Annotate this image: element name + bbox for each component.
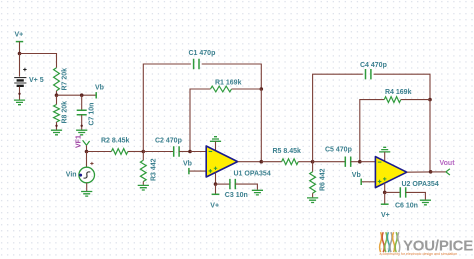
node battery/R7 junction <box>18 52 22 56</box>
svg-text:VF1: VF1 <box>76 135 83 148</box>
resistor R5 8.45k <box>261 148 312 165</box>
logo Youspice icon <box>380 232 400 252</box>
svg-text:V+: V+ <box>381 212 390 219</box>
svg-text:U1 OPA354: U1 OPA354 <box>234 171 271 178</box>
node U1 output junction <box>260 160 264 164</box>
node Vin/R2 junction <box>85 150 89 154</box>
wire to U1 inverting input <box>190 151 206 153</box>
wire junction to R7 top <box>20 54 57 68</box>
svg-text:R6 442: R6 442 <box>320 168 327 191</box>
ground below R3 <box>138 185 149 190</box>
svg-text:C6 10n: C6 10n <box>395 203 418 210</box>
resistor R7 20k <box>54 68 69 96</box>
node R1/C1 feedback junction <box>260 87 264 91</box>
capacitor C2 470p <box>143 138 190 157</box>
logo Youspice wordmark <box>380 238 474 256</box>
net label Vb at U1 non-inverting input <box>183 161 206 175</box>
net label V+ below U2 <box>381 192 390 219</box>
wire feedback vertical to U2 output <box>429 100 431 172</box>
op-amp U1 OPA354 <box>206 146 271 178</box>
svg-text:V+: V+ <box>15 32 24 39</box>
wire U1 output <box>238 161 262 163</box>
wire C4 to output feedback vertical <box>374 74 430 99</box>
resistor R2 8.45k <box>101 138 143 155</box>
svg-text:Vin: Vin <box>66 172 77 179</box>
ground above U2 (V- pin) <box>379 147 390 160</box>
svg-text:Vb: Vb <box>352 172 361 179</box>
wire C1 to output feedback vertical <box>202 64 262 89</box>
net label Vb (left) <box>95 85 104 99</box>
pin dot below R8 <box>55 125 57 127</box>
node U2 power/C6 junction <box>383 191 387 195</box>
node U1 power/C3 junction <box>214 182 218 186</box>
battery V+ 5 <box>14 54 44 100</box>
capacitor C3 10n <box>216 179 258 199</box>
ground below battery <box>14 100 25 105</box>
node R4/C4 feedback junction <box>428 98 432 102</box>
wire junction to C7 and Vb pin <box>57 94 96 96</box>
ground below Vin <box>81 192 92 197</box>
node A junction R2/R3/C2/feedback <box>142 150 146 154</box>
svg-text:C7 10n: C7 10n <box>89 103 96 126</box>
net label V+ (supply rail, top-left) <box>15 32 24 42</box>
svg-text:R7 20k: R7 20k <box>62 68 69 91</box>
svg-text:R5 8.45k: R5 8.45k <box>273 148 302 155</box>
resistor R3 442 <box>140 152 157 185</box>
resistor R4 169k <box>360 89 430 162</box>
resistor R8 20k <box>54 95 69 129</box>
node U1 inverting input junction <box>188 150 192 154</box>
capacitor C5 470p <box>313 147 360 167</box>
capacitor C1 470p <box>189 50 216 69</box>
svg-text:a community for electronic des: a community for electronic design and si… <box>380 252 458 256</box>
svg-text:C1 470p: C1 470p <box>189 50 216 57</box>
svg-text:U2 OPA354: U2 OPA354 <box>402 181 439 188</box>
ground below C7 <box>76 130 87 135</box>
wire U1 bottom power pin <box>215 173 217 185</box>
svg-text:Vb: Vb <box>95 85 104 92</box>
wire node A up to C1 (feedback top) <box>143 64 191 152</box>
wire to U2 inverting input <box>360 161 376 163</box>
wire V+ pin to battery/R7 node <box>19 42 21 54</box>
net label V+ below U1 <box>210 184 219 209</box>
svg-text:C4 470p: C4 470p <box>360 62 387 69</box>
ground below R8 <box>51 130 62 135</box>
svg-text:Vb: Vb <box>183 161 192 168</box>
svg-text:Vout: Vout <box>440 160 456 167</box>
node U2 output junction <box>429 170 433 174</box>
capacitor C4 470p <box>360 62 387 80</box>
svg-text:R8 20k: R8 20k <box>61 101 68 124</box>
wire Vin node to R2 <box>87 151 112 153</box>
wire feedback vertical to U1 output <box>260 89 262 162</box>
pin dot below battery <box>18 93 20 95</box>
resistor R1 169k <box>190 79 261 151</box>
node R7/R8/Vb junction <box>55 93 59 97</box>
resistor R6 442 <box>310 162 327 198</box>
node U2 inverting input junction <box>358 160 362 164</box>
svg-text:V+ 5: V+ 5 <box>29 77 44 84</box>
voltage source Vin <box>66 152 95 192</box>
output pin Vout <box>430 160 455 175</box>
ground right of C6 <box>420 200 431 205</box>
ground below R6 <box>307 198 318 203</box>
svg-text:R2 8.45k: R2 8.45k <box>101 138 130 145</box>
svg-text:V+: V+ <box>210 203 219 210</box>
node B junction R5/R6/C5/feedback <box>311 160 315 164</box>
op-amp U2 OPA354 <box>375 157 438 189</box>
svg-text:R3 442: R3 442 <box>150 158 157 181</box>
ground right of C3 <box>252 190 263 195</box>
svg-text:R4 169k: R4 169k <box>385 89 412 96</box>
capacitor C7 10n <box>77 95 96 129</box>
pin dot below C7 <box>81 125 83 127</box>
svg-text:C2 470p: C2 470p <box>155 138 182 145</box>
node C7 top junction <box>80 93 84 97</box>
svg-text:R1 169k: R1 169k <box>215 79 242 86</box>
capacitor C6 10n <box>385 187 426 209</box>
net label Vb at U2 non-inverting input <box>352 172 376 185</box>
ground above U1 (V- pin) <box>210 137 221 150</box>
wire U2 bottom power pin <box>384 183 386 192</box>
svg-text:C3 10n: C3 10n <box>225 192 248 199</box>
svg-text:C5 470p: C5 470p <box>325 147 352 154</box>
voltage probe VF1 <box>76 135 90 151</box>
wire node B up to C4 (feedback top) <box>313 74 363 162</box>
wire U2 output <box>407 171 430 173</box>
